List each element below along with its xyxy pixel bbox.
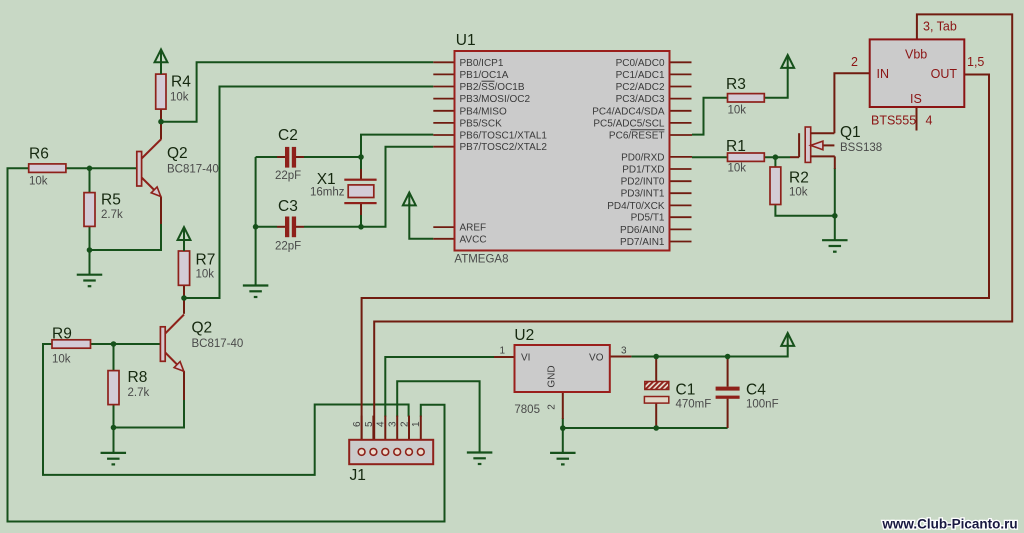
svg-text:IS: IS bbox=[910, 92, 922, 106]
wire R5 bottom / Q2 emitter to ground node bbox=[90, 168, 162, 274]
svg-text:2: 2 bbox=[851, 55, 858, 69]
svg-text:PB1/OC1A: PB1/OC1A bbox=[460, 70, 509, 81]
wire XTAL top node to U1 PB6 bbox=[304, 135, 433, 227]
resistor R5 bbox=[84, 192, 123, 227]
wire C1 pin stubs bbox=[655, 357, 657, 429]
transistor Q2 (lower BC817-40) bbox=[160, 315, 243, 372]
wire R7 bottom pin / Q2 collector pin bbox=[183, 285, 185, 314]
svg-text:7805: 7805 bbox=[514, 404, 540, 416]
wire Q2 emitter pin bbox=[160, 197, 162, 225]
connector J1 bbox=[349, 440, 433, 484]
transistor Q1 (BSS138 MOSFET) bbox=[799, 124, 882, 162]
wire U1 PD0 to R1 bbox=[692, 156, 728, 158]
svg-text:BSS138: BSS138 bbox=[840, 142, 882, 154]
svg-text:PD6/AIN0: PD6/AIN0 bbox=[620, 225, 665, 236]
wire C3 pin stubs bbox=[277, 226, 304, 228]
svg-text:16mhz: 16mhz bbox=[310, 187, 345, 199]
wire net PB0: R4 bottom junction to U1 PB0 bbox=[161, 62, 433, 121]
U1 pin stubs right bbox=[670, 62, 693, 241]
resistor R7 bbox=[178, 251, 215, 285]
svg-text:C1: C1 bbox=[676, 382, 696, 399]
svg-text:4: 4 bbox=[926, 114, 933, 128]
svg-text:BC817-40: BC817-40 bbox=[192, 338, 244, 350]
node R9/R8/Q2 base junction bbox=[111, 341, 117, 347]
resistor R4 bbox=[156, 74, 191, 110]
svg-text:1: 1 bbox=[500, 346, 506, 357]
ground (under U2) bbox=[550, 453, 576, 465]
svg-text:PC5/ADC5/SCL: PC5/ADC5/SCL bbox=[593, 118, 665, 129]
svg-text:3, Tab: 3, Tab bbox=[923, 20, 957, 34]
op-amp U2 7805 regulator body bbox=[500, 327, 628, 416]
svg-text:10k: 10k bbox=[728, 163, 747, 175]
svg-text:IN: IN bbox=[877, 67, 890, 81]
svg-text:C2: C2 bbox=[278, 127, 298, 144]
svg-text:PB2/SS/OC1B: PB2/SS/OC1B bbox=[460, 82, 525, 93]
power arrow AVCC bbox=[403, 193, 416, 206]
node VO/C4 junction bbox=[725, 354, 731, 360]
U1 overline on RESET (PC6) bbox=[631, 129, 665, 131]
svg-text:PC6/RESET: PC6/RESET bbox=[609, 131, 665, 142]
wire Q1 source pin stub bbox=[834, 156, 836, 169]
wire R4 top pin stub bbox=[160, 61, 162, 74]
svg-text:R5: R5 bbox=[101, 192, 121, 209]
svg-text:R3: R3 bbox=[726, 76, 746, 93]
svg-text:2.7k: 2.7k bbox=[128, 387, 150, 399]
svg-text:C4: C4 bbox=[746, 382, 766, 399]
wire XTAL bottom node to U1 PB7 bbox=[304, 147, 433, 227]
svg-text:PB7/TOSC2/XTAL2: PB7/TOSC2/XTAL2 bbox=[460, 142, 548, 153]
svg-text:22pF: 22pF bbox=[275, 170, 301, 182]
node C2/X1 top junction bbox=[358, 154, 364, 160]
capacitor C4 (100nF) bbox=[716, 382, 779, 411]
capacitor C2 bbox=[275, 127, 301, 182]
svg-text:GND: GND bbox=[547, 365, 558, 387]
node R2/Q1 source ground junction bbox=[832, 213, 838, 219]
svg-text:R6: R6 bbox=[29, 146, 49, 163]
svg-text:R4: R4 bbox=[171, 74, 191, 91]
resistor R9 bbox=[52, 326, 91, 366]
op-amp U1 ATMEGA8 body bbox=[454, 32, 669, 266]
svg-text:PD5/T1: PD5/T1 bbox=[631, 213, 665, 224]
svg-text:PB6/TOSC1/XTAL1: PB6/TOSC1/XTAL1 bbox=[460, 131, 548, 142]
wire C2 pin stubs bbox=[277, 156, 304, 158]
wire U2 VO rail to power arrow bbox=[631, 343, 787, 356]
svg-text:10k: 10k bbox=[789, 187, 808, 199]
svg-text:PC4/ADC4/SDA: PC4/ADC4/SDA bbox=[592, 106, 665, 117]
svg-text:3: 3 bbox=[621, 346, 627, 357]
svg-text:R7: R7 bbox=[196, 252, 216, 269]
svg-text:VO: VO bbox=[589, 353, 604, 364]
svg-text:VI: VI bbox=[521, 353, 530, 364]
svg-text:470mF: 470mF bbox=[676, 399, 712, 411]
svg-text:PD3/INT1: PD3/INT1 bbox=[621, 189, 665, 200]
wire R8 bottom / Q2 emitter to ground node bbox=[114, 344, 185, 453]
svg-text:PB5/SCK: PB5/SCK bbox=[460, 118, 503, 129]
svg-text:R2: R2 bbox=[789, 170, 809, 187]
svg-text:PC3/ADC3: PC3/ADC3 bbox=[616, 94, 665, 105]
node R1/R2/Q1 gate junction bbox=[773, 154, 779, 160]
svg-text:J1: J1 bbox=[350, 467, 366, 484]
wire net R6 to J1 pin1 bbox=[8, 168, 445, 521]
U1 left pin names bbox=[460, 58, 548, 246]
node C3 left junction bbox=[253, 224, 259, 230]
svg-text:10k: 10k bbox=[52, 354, 71, 366]
wire R3 to U1 PC6/RESET bbox=[692, 66, 788, 135]
svg-text:Q1: Q1 bbox=[840, 124, 861, 141]
svg-text:PD1/TXD: PD1/TXD bbox=[622, 165, 664, 176]
wire U2 VO pin stub (pin 3) bbox=[610, 356, 632, 358]
node R4/Q2 collector junction bbox=[158, 119, 164, 125]
svg-text:10k: 10k bbox=[196, 269, 215, 281]
ground (under C2/C3) bbox=[243, 286, 269, 298]
svg-text:100nF: 100nF bbox=[746, 399, 779, 411]
svg-text:10k: 10k bbox=[29, 176, 48, 188]
power arrow above R7 bbox=[178, 227, 191, 251]
op-amp BTS555 body bbox=[851, 20, 984, 128]
svg-text:PD2/INT0: PD2/INT0 bbox=[621, 177, 665, 188]
wire U2 GND pin stub (pin 2) bbox=[562, 392, 564, 419]
svg-text:10k: 10k bbox=[728, 105, 747, 117]
wire net PB2: R7 bottom junction to U1 PB2 bbox=[184, 87, 433, 299]
wire J1 pin3 to ground bbox=[397, 381, 479, 452]
transistor Q2 (upper BC817-40) bbox=[137, 139, 219, 197]
wire net R9 to J1 pin2 bbox=[43, 344, 409, 475]
svg-text:PB4/MISO: PB4/MISO bbox=[460, 106, 507, 117]
svg-text:PD4/T0/XCK: PD4/T0/XCK bbox=[607, 201, 665, 212]
wire U2 VI pin stub (pin 1) bbox=[494, 356, 515, 358]
svg-text:R8: R8 bbox=[128, 369, 148, 386]
svg-text:www.Club-Picanto.ru: www.Club-Picanto.ru bbox=[881, 517, 1017, 532]
wire R1 to Q1 gate bbox=[764, 156, 790, 158]
wire AVCC power arrow to U1 AVCC bbox=[409, 203, 433, 239]
svg-text:PD0/RXD: PD0/RXD bbox=[621, 152, 664, 163]
ground (right of J1) bbox=[467, 453, 493, 465]
svg-text:1: 1 bbox=[411, 421, 422, 427]
svg-text:PC0/ADC0: PC0/ADC0 bbox=[616, 58, 665, 69]
node C3/X1 bottom junction bbox=[358, 224, 364, 230]
svg-text:PC2/ADC2: PC2/ADC2 bbox=[616, 82, 665, 93]
svg-text:22pF: 22pF bbox=[275, 241, 301, 253]
svg-text:PB3/MOSI/OC2: PB3/MOSI/OC2 bbox=[460, 94, 531, 105]
svg-text:PD7/AIN1: PD7/AIN1 bbox=[620, 237, 665, 248]
ground (under Q1/R2) bbox=[822, 240, 848, 252]
svg-text:U1: U1 bbox=[456, 32, 476, 49]
svg-text:C3: C3 bbox=[278, 198, 298, 215]
svg-text:2: 2 bbox=[547, 404, 558, 410]
svg-text:AVCC: AVCC bbox=[460, 234, 487, 245]
svg-text:4: 4 bbox=[376, 421, 387, 427]
wire red net BTS555 Tab to J1 pin5 bbox=[374, 14, 1012, 448]
ground (under R5) bbox=[77, 275, 103, 287]
svg-text:Q2: Q2 bbox=[167, 145, 188, 162]
U1 overline on SS (PB2) bbox=[482, 80, 495, 82]
svg-text:10k: 10k bbox=[170, 92, 189, 104]
wire BTS555 IS pin stub (pin 4) bbox=[916, 107, 918, 131]
svg-text:OUT: OUT bbox=[931, 67, 958, 81]
resistor R3 bbox=[726, 76, 764, 117]
wire X1 pin stubs bbox=[360, 169, 362, 215]
svg-text:Q2: Q2 bbox=[192, 320, 213, 337]
node R6/R5/Q2 base junction bbox=[87, 166, 93, 172]
power arrow near C4 bbox=[781, 333, 794, 346]
J1 pin numbers bbox=[352, 421, 422, 427]
capacitor C3 bbox=[275, 198, 301, 253]
wire R4 bottom pin / Q2 collector pin bbox=[160, 74, 162, 139]
wire red net BTS555 OUT to J1 pin6 bbox=[362, 75, 989, 449]
node U2 GND rail junction bbox=[560, 425, 566, 431]
power arrow above R4 bbox=[155, 49, 168, 74]
resistor R1 bbox=[726, 138, 764, 175]
wire R2 bottom to ground node bbox=[775, 157, 834, 240]
svg-text:2.7k: 2.7k bbox=[101, 209, 123, 221]
svg-text:2: 2 bbox=[399, 421, 410, 427]
svg-text:ATMEGA8: ATMEGA8 bbox=[454, 254, 508, 266]
resistor R2 bbox=[770, 167, 809, 205]
wire J1 pin4 to U2 VI bbox=[385, 357, 494, 417]
wire red net Q1 drain to BTS555 IN bbox=[834, 73, 869, 133]
wire Q1 gate pin stub bbox=[790, 156, 799, 158]
svg-text:Vbb: Vbb bbox=[905, 48, 927, 62]
wire C2/C3 left vertical to ground bbox=[256, 157, 277, 285]
svg-text:1,5: 1,5 bbox=[967, 55, 984, 69]
svg-text:U2: U2 bbox=[514, 327, 534, 344]
node VO/C1 junction bbox=[653, 354, 659, 360]
wire R9 right to Q2 base bbox=[91, 343, 161, 345]
wire U2 GND to bottom rail bbox=[563, 418, 728, 453]
svg-text:5: 5 bbox=[364, 421, 375, 427]
svg-text:PC1/ADC1: PC1/ADC1 bbox=[616, 70, 665, 81]
svg-text:R9: R9 bbox=[52, 326, 72, 343]
wire Q2 lower emitter pin bbox=[183, 371, 185, 400]
svg-text:BC817-40: BC817-40 bbox=[167, 164, 219, 176]
svg-text:R1: R1 bbox=[726, 138, 746, 155]
node R8/emitter ground junction bbox=[111, 425, 117, 431]
node R7/Q2 collector junction bbox=[181, 295, 187, 301]
svg-text:3: 3 bbox=[388, 421, 399, 427]
resistor R6 bbox=[29, 146, 66, 188]
svg-text:X1: X1 bbox=[317, 171, 336, 188]
capacitor C1 (electrolytic 470mF) bbox=[644, 382, 711, 411]
wire J1 pin stubs 6..1 bbox=[362, 416, 421, 449]
svg-text:AREF: AREF bbox=[460, 223, 487, 234]
power arrow near R3 bbox=[781, 55, 794, 68]
node R5/emitter ground junction bbox=[87, 247, 93, 253]
svg-text:BTS555: BTS555 bbox=[871, 114, 916, 128]
wire R7 top pin stub bbox=[183, 238, 185, 251]
crystal X1 bbox=[310, 171, 377, 204]
svg-text:PB0/ICP1: PB0/ICP1 bbox=[460, 58, 504, 69]
U1 right pin names bbox=[592, 58, 665, 248]
wire C4 pin stubs bbox=[727, 357, 729, 429]
ground (under R8) bbox=[101, 453, 127, 465]
wire R6 right to Q2 base bbox=[66, 167, 137, 169]
U1 pin stubs left bbox=[433, 62, 454, 239]
svg-text:6: 6 bbox=[352, 421, 363, 427]
resistor R8 bbox=[108, 369, 149, 405]
node C1 bottom rail junction bbox=[653, 425, 659, 431]
